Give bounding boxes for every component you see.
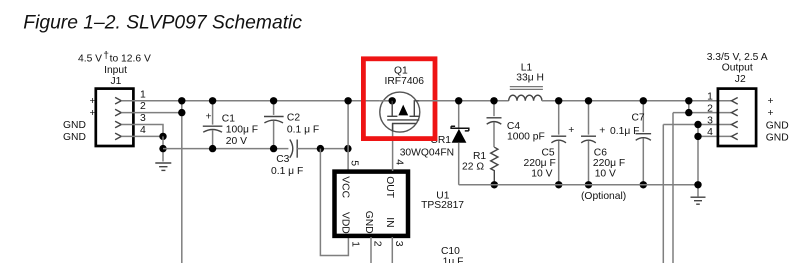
J2 pin 1 chevron: [732, 98, 738, 105]
wire ground rail: [459, 184, 698, 186]
wire J2 vout sense drop: [672, 113, 674, 263]
IC U1 TPS2817 body: [335, 172, 409, 236]
node VCC branch lower: [344, 145, 351, 152]
svg-text:4: 4: [394, 159, 405, 165]
node C2 bottom: [270, 145, 277, 152]
node C6 gnd: [585, 181, 592, 188]
wire J2 plus tie: [688, 101, 690, 113]
wire J1 pin2 stub: [121, 112, 182, 114]
capacitor C6: [581, 101, 596, 185]
Q1 gate lead: [393, 124, 417, 132]
svg-text:R1: R1: [473, 151, 486, 162]
J2 pin 4 chevron: [732, 133, 738, 140]
node gnd rail right: [694, 181, 701, 188]
svg-text:3: 3: [707, 115, 713, 126]
capacitor C5: [551, 101, 566, 185]
node J2 pin2: [685, 109, 692, 116]
red highlight box around Q1: [363, 59, 435, 139]
svg-text:to 12.6 V: to 12.6 V: [110, 54, 151, 65]
Q1 drain lead: [414, 101, 420, 117]
svg-text:Output: Output: [722, 62, 753, 73]
svg-text:J1: J1: [111, 76, 122, 87]
svg-text:C5: C5: [542, 147, 555, 158]
svg-text:IRF7406: IRF7406: [385, 76, 425, 87]
node C2 top: [270, 97, 277, 104]
svg-text:22 Ω: 22 Ω: [462, 161, 484, 172]
diode CR1 (Schottky): [451, 101, 469, 185]
svg-text:10 V: 10 V: [531, 168, 552, 179]
svg-text:†: †: [103, 50, 109, 61]
wire J2 pin2 line: [673, 112, 732, 114]
node J2 pin3: [694, 121, 701, 128]
wire J1 pin1 to top rail: [121, 100, 380, 102]
svg-text:+: +: [768, 96, 774, 107]
svg-text:Input: Input: [104, 65, 127, 76]
J2 pin 3 chevron: [732, 121, 738, 128]
wire J2 gnd tie: [697, 125, 699, 197]
svg-text:2: 2: [140, 101, 146, 112]
capacitor C4: [487, 101, 502, 147]
wire rail L1 to J2: [542, 100, 732, 102]
inductor L1: [509, 87, 543, 101]
wire VDD hook: [320, 149, 348, 256]
svg-text:+: +: [568, 125, 574, 136]
svg-text:VCC: VCC: [339, 176, 350, 198]
node VDD branch: [317, 145, 324, 152]
svg-text:C6: C6: [594, 147, 607, 158]
svg-text:C3: C3: [276, 154, 289, 165]
svg-text:2: 2: [707, 103, 713, 114]
capacitor C7: [636, 101, 652, 185]
node J1 pin2 tie: [178, 109, 185, 116]
wire VCC drop from rail: [347, 101, 349, 171]
svg-text:10 V: 10 V: [595, 168, 616, 179]
svg-text:C4: C4: [507, 121, 520, 132]
svg-text:4.5 V: 4.5 V: [78, 54, 102, 65]
node J1 gnd tie: [159, 133, 166, 140]
Q1 gate bar: [387, 119, 419, 121]
wire rail Q1 to L1: [420, 100, 509, 102]
node C5 rail: [555, 97, 562, 104]
ground symbol at J1: [155, 163, 171, 170]
wire J1 pin3 stub: [121, 125, 163, 137]
J1 pin 1 chevron: [115, 97, 121, 104]
svg-text:+: +: [90, 108, 96, 119]
svg-text:J2: J2: [735, 74, 746, 85]
J2 pin 2 chevron: [732, 109, 738, 116]
svg-text:GND: GND: [63, 120, 86, 131]
svg-text:1μ F: 1μ F: [443, 257, 464, 263]
J1 pin 3 chevron: [115, 121, 121, 128]
svg-text:GND: GND: [63, 132, 86, 143]
svg-text:C2: C2: [287, 113, 300, 124]
node lower rail left: [159, 145, 166, 152]
node J2 pin1: [685, 97, 692, 104]
svg-text:OUT: OUT: [384, 176, 395, 198]
resistor R1: [491, 147, 498, 185]
svg-text:220μ F: 220μ F: [524, 158, 556, 169]
Q1 source bar: [387, 115, 397, 117]
svg-text:0.1μ F: 0.1μ F: [610, 126, 639, 137]
Q1 body arrow: [398, 105, 408, 116]
svg-text:4: 4: [707, 127, 713, 138]
Q1 source dot: [389, 97, 396, 104]
capacitor C2: [264, 101, 284, 149]
node C7 gnd: [640, 181, 647, 188]
node C1 top: [209, 97, 216, 104]
node VCC rail: [344, 97, 351, 104]
svg-text:1: 1: [140, 89, 146, 100]
svg-text:20 V: 20 V: [226, 136, 247, 147]
node R1 bottom: [491, 181, 498, 188]
wire J2 pin3 line: [663, 124, 731, 126]
svg-text:TPS2817: TPS2817: [421, 200, 464, 211]
svg-text:1: 1: [707, 92, 713, 103]
svg-text:1: 1: [350, 241, 361, 247]
node C7 rail: [640, 97, 647, 104]
capacitor C3 (series in lower rail): [290, 140, 348, 158]
node CR1 rail: [455, 97, 462, 104]
wire lower rail (gnd to C3): [163, 148, 288, 150]
connector J2 body: [718, 89, 756, 146]
svg-text:3: 3: [140, 113, 146, 124]
wire U1 OUT to gate: [392, 124, 394, 172]
svg-text:220μ F: 220μ F: [593, 158, 625, 169]
connector J1 body: [96, 89, 134, 146]
svg-text:+: +: [206, 111, 212, 122]
capacitor C1: [203, 101, 223, 149]
svg-text:+: +: [90, 96, 96, 107]
svg-text:VDD: VDD: [339, 212, 350, 234]
svg-text:+: +: [599, 126, 605, 137]
node J1 pin1 tie: [178, 97, 185, 104]
svg-text:Figure 1–2. SLVP097 Schematic: Figure 1–2. SLVP097 Schematic: [23, 12, 302, 33]
wire input sense drop: [181, 101, 183, 263]
J1 pin 2 chevron: [115, 109, 121, 116]
ground symbol at J2: [691, 197, 706, 204]
svg-text:33μ H: 33μ H: [516, 73, 544, 84]
Q1 source drop: [391, 101, 393, 117]
svg-text:2: 2: [371, 241, 382, 247]
svg-text:GND: GND: [766, 121, 789, 132]
Q1 source wire: [380, 100, 392, 102]
svg-text:+: +: [768, 108, 774, 119]
svg-text:1000 pF: 1000 pF: [507, 131, 545, 142]
svg-text:5: 5: [348, 160, 359, 166]
J1 pin 4 chevron: [115, 133, 121, 140]
svg-text:C1: C1: [222, 113, 235, 124]
svg-text:30WQ04FN: 30WQ04FN: [400, 147, 454, 158]
svg-text:C7: C7: [632, 113, 645, 124]
node C4 rail: [490, 97, 497, 104]
node C6 rail: [585, 97, 592, 104]
Q1 drain bar: [410, 115, 420, 117]
svg-text:(Optional): (Optional): [581, 191, 626, 202]
svg-text:4: 4: [140, 125, 146, 136]
wire J1 gnd drop: [162, 136, 164, 161]
svg-text:GND: GND: [766, 133, 789, 144]
node C5 gnd: [555, 181, 562, 188]
transistor Q1 circle: [380, 92, 420, 132]
wire U1 pin2 drop: [370, 237, 372, 263]
svg-text:0.1 μ F: 0.1 μ F: [287, 125, 319, 136]
svg-text:GND: GND: [363, 211, 374, 234]
wire J2 gnd sense drop: [662, 125, 664, 263]
svg-text:0.1 μ F: 0.1 μ F: [271, 166, 303, 177]
svg-text:100μ F: 100μ F: [226, 124, 258, 135]
wire U1 pin3 drop: [391, 237, 393, 263]
svg-text:3: 3: [393, 241, 404, 247]
svg-text:IN: IN: [384, 217, 395, 227]
wire J1 pin4 stub: [121, 135, 163, 137]
wire J2 pin4 line: [698, 135, 732, 137]
node C1 bottom: [209, 145, 216, 152]
node J2 pin4: [694, 133, 701, 140]
